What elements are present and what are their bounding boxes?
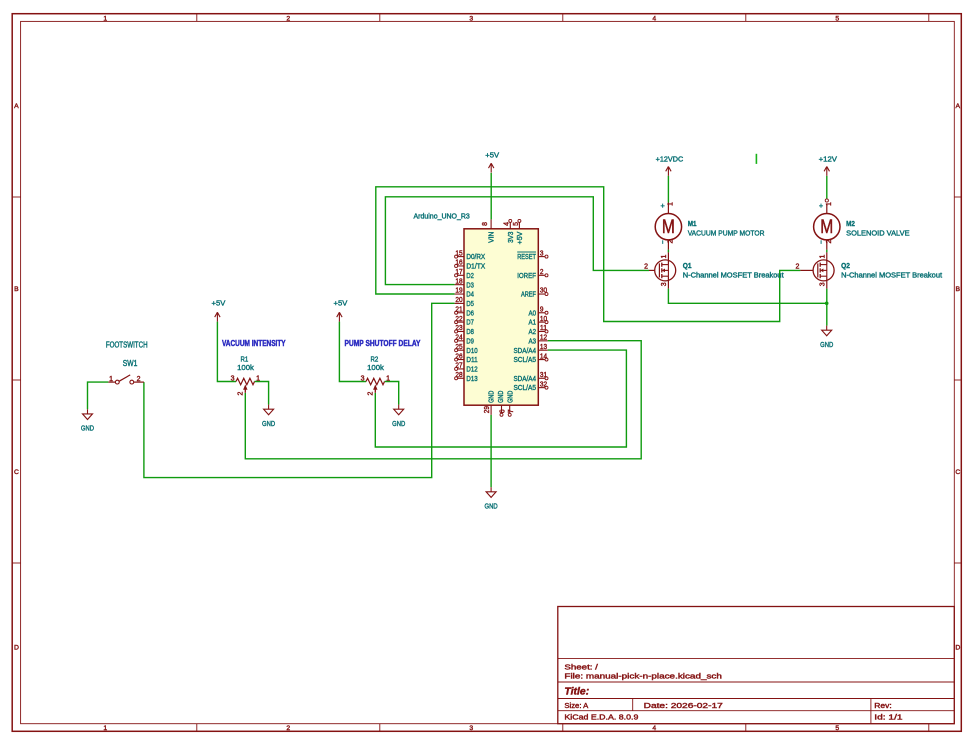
svg-text:M: M [662,217,675,238]
svg-text:D9: D9 [466,336,474,345]
svg-text:26: 26 [455,353,462,360]
svg-text:27: 27 [455,363,462,370]
svg-text:A: A [956,103,961,110]
svg-text:C: C [14,469,19,476]
pin 3 RESET [517,250,548,261]
svg-text:3: 3 [231,376,235,383]
svg-text:SOLENOID VALVE: SOLENOID VALVE [846,229,910,238]
motor M1 VACUUM PUMP MOTOR [655,201,765,250]
svg-text:2: 2 [795,263,799,270]
svg-text:7: 7 [508,409,515,413]
pin 26 D11 [455,353,478,364]
svg-text:PUMP SHUTOFF DELAY: PUMP SHUTOFF DELAY [345,339,422,348]
svg-text:1: 1 [668,202,675,206]
svg-text:SW1: SW1 [123,359,138,368]
pin 21 D6 [455,306,474,317]
svg-text:+5V: +5V [212,299,227,308]
svg-text:GND: GND [505,391,514,403]
svg-text:2: 2 [238,391,245,395]
svg-text:R1: R1 [241,354,249,363]
svg-text:FOOTSWITCH: FOOTSWITCH [106,341,148,350]
svg-text:12: 12 [540,335,547,342]
svg-text:GND: GND [262,419,275,428]
pin 9 A0 [528,306,548,317]
power +5V (Arduino) [485,150,500,172]
svg-text:D8: D8 [466,327,474,336]
pin 32 SCL/A5 [513,381,548,392]
svg-text:GND: GND [487,391,496,403]
svg-text:VACUUM PUMP MOTOR: VACUUM PUMP MOTOR [688,229,765,238]
svg-text:D11: D11 [466,355,477,364]
pin 24 D9 [455,335,474,346]
svg-text:D13: D13 [466,374,477,383]
svg-text:2: 2 [644,263,648,270]
svg-text:A: A [14,103,19,110]
svg-text:Id: 1/1: Id: 1/1 [874,712,902,721]
svg-text:IOREF: IOREF [517,271,536,280]
pin 6 GND [496,391,506,417]
wire R1 wiper to Arduino A3 [245,341,641,459]
svg-text:+5V: +5V [485,150,500,159]
svg-text:2: 2 [286,15,290,22]
ground (SW1) [81,409,94,432]
ground (R1) [262,405,275,428]
svg-text:D6: D6 [466,308,474,317]
svg-text:Q1: Q1 [683,261,692,270]
svg-text:Q2: Q2 [841,261,850,270]
wire R2 wiper to Arduino SDA/A4 [375,350,626,447]
pin 29 GND [484,391,495,415]
wire M2 - to Q2 drain [826,250,828,253]
stray wire stub [755,154,757,164]
svg-text:SDA/A4: SDA/A4 [513,346,536,355]
wire M1 - to Q1 drain [667,250,669,253]
wire Q2 source to GND [826,289,828,326]
svg-text:D10: D10 [466,346,477,355]
switch SW1 FOOTSWITCH [106,341,148,384]
svg-text:Title:: Title: [564,686,589,697]
wire D3 to Q1 gate [385,197,649,285]
svg-text:D7: D7 [466,318,474,327]
IC U1 Arduino_UNO_R3 [414,212,539,406]
svg-text:2: 2 [540,269,544,276]
svg-text:B: B [14,286,19,293]
wire +12VDC to M1 + [667,176,669,203]
transistor Q2 N-Channel MOSFET Breakout [795,252,942,288]
svg-text:3: 3 [540,250,544,257]
wire SW1 pin 1 to GND [88,382,109,409]
svg-text:8: 8 [482,222,489,226]
svg-text:+12V: +12V [819,154,838,163]
svg-text:D3: D3 [466,280,474,289]
svg-text:2: 2 [137,376,141,383]
svg-text:GND: GND [485,501,498,510]
svg-text:M: M [820,217,833,238]
svg-text:D: D [14,645,19,652]
svg-text:C: C [955,469,960,476]
svg-text:RESET: RESET [517,252,536,261]
svg-text:+5V: +5V [334,299,349,308]
svg-text:A0: A0 [528,308,536,317]
svg-text:N-Channel MOSFET Breakout: N-Channel MOSFET Breakout [841,270,943,279]
svg-text:+12VDC: +12VDC [656,154,684,163]
svg-text:13: 13 [540,344,547,351]
svg-text:Rev:: Rev: [874,701,891,710]
pin 8 VIN [482,219,496,243]
svg-text:M2: M2 [846,219,855,228]
svg-text:KiCad E.D.A. 8.0.9: KiCad E.D.A. 8.0.9 [564,712,638,721]
power +12VDC [656,154,684,176]
svg-text:D2: D2 [466,271,474,280]
svg-text:D12: D12 [466,365,477,374]
svg-text:19: 19 [455,288,462,295]
pin 11 A2 [528,325,548,336]
transistor Q1 N-Channel MOSFET Breakout [644,252,784,288]
svg-text:2: 2 [826,239,833,243]
wire D4 to Q2 gate [376,187,801,322]
svg-text:Arduino_UNO_R3: Arduino_UNO_R3 [414,212,470,221]
svg-text:4: 4 [652,725,656,732]
svg-text:1: 1 [256,376,260,383]
wire R1 pin 1 to GND [255,382,269,405]
svg-text:D5: D5 [466,299,474,308]
potentiometer R2 100k [345,339,422,395]
power +12V [819,154,838,176]
pin 7 GND [505,391,514,417]
svg-text:28: 28 [455,372,462,379]
svg-text:6: 6 [499,409,506,413]
svg-text:100k: 100k [237,363,254,372]
pin 12 A3 [528,335,547,346]
svg-text:3V3: 3V3 [506,232,515,243]
pin 27 D12 [455,363,478,374]
svg-text:1: 1 [661,254,668,258]
svg-text:21: 21 [455,306,462,313]
svg-text:14: 14 [540,353,547,360]
motor M2 SOLENOID VALVE [814,199,910,250]
svg-text:17: 17 [455,269,462,276]
pin 17 D2 [455,269,474,280]
svg-text:1: 1 [103,725,107,732]
svg-text:+: + [819,201,823,210]
junction GND net [825,302,829,306]
svg-text:4: 4 [503,222,510,226]
pin 18 D3 [455,278,474,289]
svg-text:22: 22 [455,316,462,323]
svg-text:1: 1 [103,15,107,22]
svg-text:3: 3 [469,725,473,732]
svg-text:100k: 100k [367,363,384,372]
svg-text:AREF: AREF [521,290,536,299]
svg-text:11: 11 [540,325,547,332]
pin 30 AREF [521,288,548,299]
svg-text:D1/TX: D1/TX [466,262,485,271]
svg-text:VIN: VIN [487,232,496,243]
svg-text:SCL/A5: SCL/A5 [513,383,536,392]
power +5V (R2) [334,299,349,322]
svg-text:Sheet: /: Sheet: / [564,663,599,672]
power +5V (R1) [212,299,227,322]
svg-text:29: 29 [484,406,491,413]
svg-text:1: 1 [819,254,826,258]
svg-text:9: 9 [540,306,544,313]
svg-text:N-Channel MOSFET Breakout: N-Channel MOSFET Breakout [683,270,785,279]
pin 13 SDA/A4 [513,344,547,355]
svg-text:5: 5 [835,725,839,732]
potentiometer R1 100k [222,339,286,395]
svg-text:File: manual-pick-n-place.kica: File: manual-pick-n-place.kicad_sch [564,671,722,680]
pin 10 A1 [528,316,548,327]
svg-text:1: 1 [826,202,833,206]
svg-text:1: 1 [109,376,113,383]
svg-text:25: 25 [455,344,462,351]
svg-text:A3: A3 [528,336,536,345]
svg-text:+: + [661,201,665,210]
svg-text:2: 2 [668,239,675,243]
svg-text:3: 3 [361,376,365,383]
ground (Arduino) [485,487,498,510]
svg-text:R2: R2 [371,354,379,363]
svg-text:+5V: +5V [515,231,524,244]
svg-text:3: 3 [819,282,826,286]
svg-text:Date: 2026-02-17: Date: 2026-02-17 [644,701,723,710]
ground (R2) [392,405,405,428]
title block [558,607,955,724]
wire Arduino GND pin 29 to GND [490,415,492,487]
svg-text:VACUUM INTENSITY: VACUUM INTENSITY [222,339,286,348]
svg-text:5: 5 [835,15,839,22]
pin 25 D10 [455,344,478,355]
pin 19 D4 [455,288,474,299]
svg-text:15: 15 [455,250,462,257]
wire Q1 source to GND net [668,289,826,304]
wire +12V to M2 + [826,176,828,199]
svg-text:GND: GND [392,419,405,428]
svg-text:2: 2 [368,391,375,395]
svg-text:3: 3 [469,15,473,22]
pin 14 SCL/A5 [513,353,548,364]
wire +5V to R1 pin 3 [216,172,218,174]
svg-text:32: 32 [540,381,547,388]
svg-text:Size: A: Size: A [564,701,588,710]
ground (Q1/Q2) [820,326,833,349]
pin 22 D7 [455,316,474,327]
svg-text:18: 18 [455,278,462,285]
svg-text:A1: A1 [528,318,536,327]
svg-text:D0/RX: D0/RX [466,252,485,261]
svg-text:D4: D4 [466,290,474,299]
svg-text:B: B [956,286,961,293]
svg-text:20: 20 [455,297,462,304]
svg-text:GND: GND [81,424,94,433]
pin 31 SDA/A4 [513,372,548,383]
svg-text:SCL/A5: SCL/A5 [513,355,536,364]
pin 4 3V3 [503,219,515,243]
pin 28 D13 [455,372,478,383]
wire R2 pin 1 to GND [385,382,399,405]
svg-text:GND: GND [496,391,505,403]
svg-text:30: 30 [540,288,547,295]
svg-text:23: 23 [455,325,462,332]
svg-text:16: 16 [455,260,462,267]
pin 15 D0/RX [455,250,486,261]
svg-text:3: 3 [661,282,668,286]
svg-text:4: 4 [652,15,656,22]
pin 20 D5 [455,297,474,308]
svg-text:D: D [955,645,960,652]
pin 16 D1/TX [455,260,486,271]
wire +5V to R2 pin 3 [339,322,366,382]
pin 5 +5V [513,219,524,244]
pin 23 D8 [455,325,474,336]
wire D5 to SW1 pin 2 [144,303,455,477]
svg-text:31: 31 [540,372,547,379]
svg-text:GND: GND [820,340,833,349]
pin 2 IOREF [517,269,548,280]
svg-text:2: 2 [286,725,290,732]
svg-text:10: 10 [540,316,547,323]
svg-text:SDA/A4: SDA/A4 [513,374,536,383]
svg-text:A2: A2 [528,327,536,336]
wire +5V to Arduino VIN [490,173,492,220]
svg-text:1: 1 [386,376,390,383]
svg-text:5: 5 [513,222,520,226]
svg-text:M1: M1 [688,219,697,228]
svg-text:24: 24 [455,335,462,342]
